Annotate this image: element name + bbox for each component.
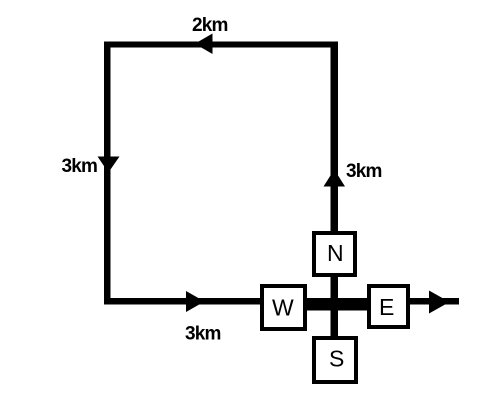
svg-text:3km: 3km bbox=[62, 156, 98, 177]
svg-text:E: E bbox=[379, 294, 394, 320]
svg-text:S: S bbox=[329, 346, 344, 372]
svg-text:3km: 3km bbox=[185, 324, 221, 345]
svg-text:W: W bbox=[272, 294, 294, 320]
svg-text:3km: 3km bbox=[346, 161, 382, 182]
svg-text:2km: 2km bbox=[192, 15, 228, 36]
svg-text:N: N bbox=[327, 240, 344, 266]
